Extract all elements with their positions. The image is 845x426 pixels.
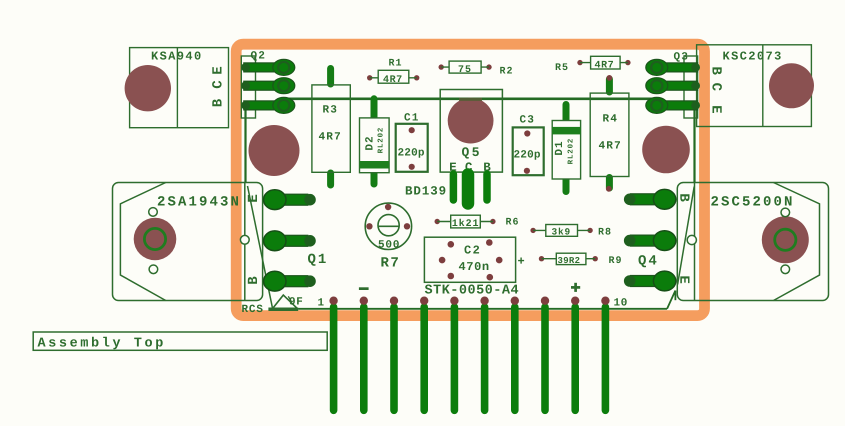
package KSA940 outline <box>130 48 229 128</box>
RCS triangle <box>272 295 298 309</box>
value RL202 (D2, rotated) <box>378 128 383 153</box>
transistor Q3 pads <box>646 59 700 113</box>
resistor R5 pads <box>577 60 582 65</box>
value 3k9 (R8) <box>552 228 570 235</box>
resistor R1 body <box>378 70 409 83</box>
resistor R9 body <box>556 253 586 264</box>
wire Q2 pin3 to Q1 E <box>244 107 246 182</box>
plus mark <box>571 286 580 289</box>
value 500 (R7) <box>379 240 399 248</box>
label Q2 <box>251 51 264 61</box>
diode D1 cathode band <box>552 127 580 134</box>
label R6 <box>506 218 518 225</box>
resistor R8 body <box>546 225 578 237</box>
package KSC2073 outline <box>697 45 812 127</box>
resistor R4 body <box>590 93 629 176</box>
tick mark near 9F <box>288 296 290 299</box>
value 470n (C2) <box>459 262 489 270</box>
resistor R4 lead pads <box>607 75 613 81</box>
transistor Q5 body <box>440 90 502 173</box>
package 2SA1943N outline <box>113 183 263 301</box>
label D2 (rotated) <box>365 137 372 150</box>
label KSC2073 <box>723 52 780 60</box>
label C3 <box>520 115 533 123</box>
label RCS <box>242 305 262 313</box>
2SC5200N diagonal edge line <box>678 187 695 285</box>
label R4 <box>603 114 616 121</box>
value 75 (R2) <box>459 65 471 72</box>
capacitor C1 pads <box>409 127 415 133</box>
transistor Q5 hole <box>448 98 494 144</box>
minus mark <box>359 287 369 290</box>
resistor R1 leads <box>370 77 417 79</box>
label C1 <box>404 113 418 121</box>
board mounting hole left <box>249 125 300 176</box>
diode D1 leads <box>563 105 570 192</box>
2SA1943N pin labels E B (rotated) <box>248 195 257 284</box>
label Q3 <box>674 52 687 62</box>
resistor R2 leads <box>441 66 489 68</box>
transistor Q5 legs <box>453 174 487 204</box>
resistor R5 leads <box>580 62 628 64</box>
resistor R3 body <box>312 85 350 172</box>
diode D2 cathode band <box>360 161 390 169</box>
label KSA940 <box>152 52 201 60</box>
label R5 <box>556 63 568 70</box>
value 4R7 (R1) <box>383 75 401 82</box>
value RL202 (D1, rotated) <box>568 139 573 164</box>
capacitor C2 body <box>424 237 515 282</box>
board outline highlight (orange) <box>236 44 704 315</box>
diode D1 body <box>552 121 580 180</box>
resistor R6 pads <box>435 219 440 224</box>
pin 10 label <box>614 298 627 306</box>
resistor R8 leads <box>533 229 590 231</box>
label R1 <box>389 59 401 66</box>
board mounting hole right <box>642 126 690 174</box>
label STK-0050-A4 <box>425 285 518 294</box>
resistor R2 pads <box>439 64 444 69</box>
resistor R2 body <box>449 61 481 73</box>
label Q4 <box>639 255 657 267</box>
value 220p (C1) <box>398 148 424 158</box>
wire main horizontal net <box>280 98 654 101</box>
label Q5 <box>462 147 479 158</box>
capacitor C2 pads <box>439 239 503 280</box>
resistor R6 body <box>451 215 481 228</box>
label D1 (rotated) <box>555 142 562 155</box>
resistor R3 leads <box>327 69 334 186</box>
resistor R8 pads <box>530 228 535 233</box>
label R2 <box>500 67 512 74</box>
2SA1943N small holes <box>149 208 158 217</box>
label R9 <box>609 256 621 263</box>
label Q1 <box>308 254 326 266</box>
label C2 <box>465 246 480 254</box>
trimmer R7 body <box>365 203 411 249</box>
pin 1 label <box>318 298 323 305</box>
value 4R7 (R5) <box>595 61 613 68</box>
KSC2073 mounting hole <box>769 63 814 108</box>
connector pins 1-10 <box>329 297 609 411</box>
KSA940 mounting hole <box>125 65 171 111</box>
label R3 <box>323 105 336 113</box>
2SC5200N small holes <box>781 208 790 217</box>
transistor Q2 pads <box>241 59 295 113</box>
resistor R1 pads <box>367 75 372 80</box>
resistor R9 leads <box>542 258 596 260</box>
label 2SC5200N <box>711 196 791 206</box>
value 39R2 (R9) <box>558 257 580 263</box>
connector body line <box>298 308 667 310</box>
value 4R7 (R4) <box>599 141 620 148</box>
value 4R7 (R3) <box>319 132 340 139</box>
transistor Q4 pads <box>624 189 676 290</box>
label R8 <box>599 228 611 235</box>
title Assembly Top <box>38 337 163 350</box>
transistor Q3 outline <box>684 56 698 118</box>
2SC5200N pad ring <box>775 229 796 250</box>
2SA1943N pad ring <box>144 228 165 249</box>
2SA1943N diagonal edge line <box>248 186 273 309</box>
wire Q4 E to connector <box>667 291 675 309</box>
wire Q3 pin3 to Q4 B <box>693 107 695 182</box>
resistor R9 pads <box>539 256 544 261</box>
label 2SA1943N <box>158 196 238 206</box>
trimmer R7 rotor <box>378 215 399 236</box>
package 2SC5200N outline <box>677 183 828 301</box>
resistor R5 body <box>591 56 621 69</box>
C2 polarity + <box>518 258 524 264</box>
diode D2 body <box>360 118 390 173</box>
label BD139 <box>406 186 446 195</box>
resistor R6 leads <box>437 221 493 223</box>
transistor Q2 outline <box>241 56 255 118</box>
capacitor C3 body <box>513 127 544 175</box>
title block box <box>33 332 327 350</box>
value 220p (C3) <box>514 150 540 160</box>
value 1k21 (R6) <box>453 219 479 226</box>
2SA1943N center hole <box>134 218 177 261</box>
trimmer R7 pads <box>366 223 372 229</box>
label R7 <box>381 257 398 266</box>
2SC5200N center hole <box>762 216 809 263</box>
capacitor C1 body <box>396 124 428 172</box>
diode D2 leads <box>371 99 378 184</box>
Q5 pin labels E C B <box>450 163 456 171</box>
capacitor C3 pads <box>524 130 530 136</box>
resistor R4 leads <box>606 79 613 188</box>
2SC5200N pin labels B E (rotated) <box>680 194 689 283</box>
KSC2073 pin labels B C E (rotated) <box>712 67 722 113</box>
value 9F (RCS) <box>290 297 303 305</box>
wire chord over Q5 hole <box>459 98 482 101</box>
transistor Q1 pads <box>264 190 316 291</box>
KSA940 pin labels B C E (rotated) <box>212 67 222 106</box>
